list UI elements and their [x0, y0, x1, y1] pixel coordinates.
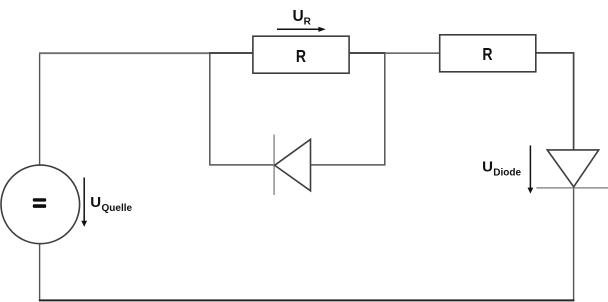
- svg-text:U: U: [293, 8, 304, 25]
- svg-text:R: R: [482, 44, 492, 64]
- svg-text:R: R: [296, 46, 306, 66]
- svg-text:U: U: [90, 194, 101, 211]
- svg-text:R: R: [304, 17, 312, 28]
- svg-text:Diode: Diode: [493, 168, 521, 179]
- svg-text:Quelle: Quelle: [102, 203, 133, 214]
- svg-text:U: U: [482, 159, 493, 176]
